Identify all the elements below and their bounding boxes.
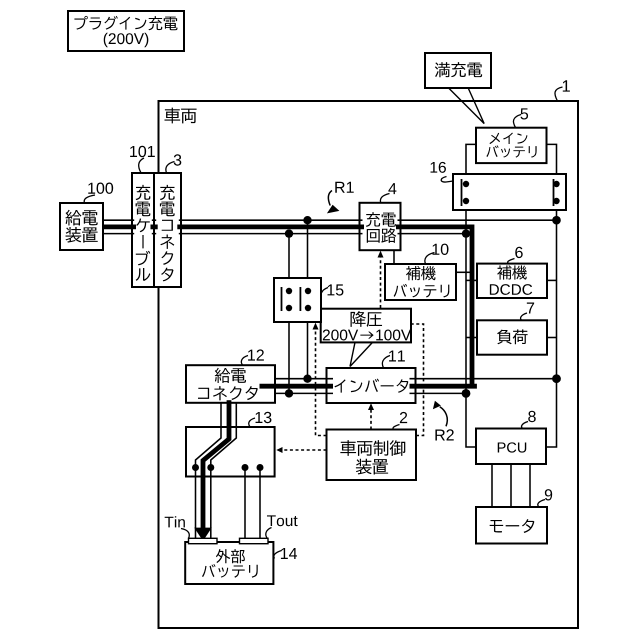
leader 15 [321,288,328,301]
relay15 left bar [281,287,283,311]
wire dashed control VCU to charge circuit [411,324,424,436]
text motor [490,519,535,533]
text step down [351,311,383,327]
wire dashed control VCU to inverter [370,406,372,430]
label 10 [433,244,449,255]
node bus1 bottom / relay15 [285,229,293,237]
terminal Tout [240,538,269,543]
charging connector box 3 [156,174,179,286]
text VCU [340,440,405,456]
text vehicle [164,108,196,124]
step-down callout tail [350,342,373,366]
leader 12 [241,356,248,366]
leader 9 [538,500,545,507]
wire relay15 left lower [288,308,290,393]
leader Tin [181,529,189,539]
text feed connector [215,368,246,383]
leader 1 [555,87,563,101]
label 100 [88,183,113,194]
relay16 left bar [461,179,463,206]
wire relay15 left upper [288,234,290,291]
main battery box 5 [477,129,546,162]
inverter box 11 [333,369,410,402]
pin wire Tout right [259,468,261,541]
thick bus2 right overshoot [410,384,477,389]
wire aux DCDC left stub [466,279,477,281]
motor box 9 [477,509,546,543]
leader 5 [513,115,521,128]
node bus2 top / right rail [552,374,561,383]
cable in box13 thin left [196,402,222,468]
wire PCU to motor 3 [529,464,531,507]
full-charge callout tail [449,89,484,124]
text load [497,329,528,344]
label R2 [435,429,453,440]
label 15 [328,284,344,295]
node bus1 top / battery right [552,216,561,225]
node bus2 bottom / left rail [462,389,471,398]
node bus1 bottom / battery left [462,229,470,237]
text plug-in charge line2 [104,33,149,47]
label R1 [335,182,353,193]
label 13 [256,412,272,423]
label Tout [267,515,298,526]
label 12 [248,349,264,360]
cable in box13 thick [203,402,229,529]
label 14 [281,548,297,559]
leader 3 [166,162,175,173]
leader 7 [521,313,527,320]
wire PCU to motor 2 [510,464,512,507]
label 3 [174,154,182,165]
leader 14 [274,551,282,559]
wire main battery right lead [547,144,557,184]
text aux battery [406,266,436,280]
leader 13 [249,418,255,427]
wire bus2 top conductor [275,378,557,380]
aux battery box 10 [386,265,455,299]
thick bus1 segment at shared border [151,224,158,229]
cable in box13 thin right [211,402,237,468]
relay16 contact dots [463,181,469,187]
thick bus1 segment at cable box border [103,224,136,229]
node bus1 top / relay15 [303,216,311,224]
charging cable box 101 [134,174,152,286]
wire relay15 right upper [307,220,309,291]
wire PCU to motor 1 [491,464,493,507]
text plug-in charge line1 [74,16,177,30]
text aux DCDC [497,265,526,279]
label 6 [515,247,522,258]
thick cable drop from feed connector [227,400,232,403]
step-down callout box [322,310,410,342]
text full charge [435,62,482,77]
wire bus2 bottom conductor [275,392,466,394]
wire relay15 right lower [307,308,309,379]
label 11 [389,351,405,362]
label 5 [520,108,528,119]
R2 arrow [440,407,448,427]
aux DCDC box 6 [478,265,546,298]
system main relay box 16 [454,175,565,209]
pin wire Tin right [210,468,212,541]
label 9 [545,489,552,500]
leader Tout [266,528,272,539]
wire load left stub [466,337,477,339]
relay box 15 [275,279,320,321]
leader 4 [380,194,389,203]
label 101 [130,146,155,157]
leader 10 [425,253,435,264]
label 7 [527,303,534,314]
external battery box 14 [187,543,273,583]
power feed device box 100 [61,204,102,249]
relay15 contact dots [286,288,292,294]
text external battery [216,549,245,563]
thick bus1 to vertical drop [396,227,472,386]
pin wire Tout left [244,468,246,541]
label 16 [431,162,446,173]
node bus2 top / relay15 [303,375,311,383]
text PCU [498,442,527,452]
dashed arrowhead into relay15 [313,323,319,330]
vehicle control unit box 2 [328,431,415,479]
dashed arrowhead into charge circuit [378,251,384,258]
leader 101 [139,158,144,173]
leader 2 [393,425,399,430]
label Tin [165,516,185,527]
feed connector box 12 [188,367,274,402]
text feed device [66,210,98,226]
box13 pin dots [192,464,199,471]
label 4 [388,183,396,194]
dashed arrowhead into box13 [276,447,282,453]
wire aux DCDC right stub [547,279,557,281]
leader 8 [522,422,528,429]
full-charge callout box [426,54,490,87]
relay16 right bar [553,179,555,206]
connect unit box 13 [188,428,274,475]
wire right rail [547,201,557,447]
wire dashed control VCU to connect box 13 [282,449,327,451]
label plug-in charge callout box [69,12,183,50]
wire bus1 top conductor [103,219,557,221]
wire charge circuit to aux battery [393,250,395,264]
wire left rail [466,201,476,447]
dashed arrowhead into inverter [368,403,374,410]
label 8 [528,411,536,422]
pin wire Tin left [195,468,197,541]
wire load right stub [547,337,557,339]
vehicle enclosure box 1 [159,101,579,628]
terminal Tin [189,538,218,543]
text charging connector vertical [160,185,175,282]
R1 arrow [328,191,332,206]
text charging cable vertical [136,185,151,281]
thick bus1 main segment [177,224,364,229]
wire dashed control VCU to relay 15 [316,325,327,436]
text charge circuit [366,212,396,227]
load box 7 [478,321,546,354]
node bus2 bottom / relay15 [285,389,293,397]
text main battery [489,133,527,145]
leader 11 [382,356,390,368]
wire main battery left lead [466,144,476,184]
leader 6 [508,259,515,264]
cable arrowhead into external battery [194,528,212,541]
PCU box 8 [477,430,545,463]
thick bus2 left segment [260,384,334,389]
wire bus1 bottom conductor [103,233,466,235]
wire dashed charge circuit stub [380,253,382,309]
wire aux battery right stub [456,271,471,273]
text inverter [334,379,408,393]
charge circuit box 4 [363,204,398,249]
leader 16 [441,177,453,183]
label 2 [400,412,407,423]
relay15 right bar [299,287,301,311]
label 1 [563,80,570,91]
leader 100 [84,195,95,203]
